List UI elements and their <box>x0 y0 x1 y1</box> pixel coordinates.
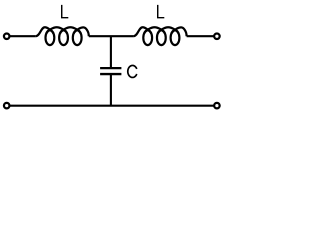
wire between inductors <box>89 35 134 37</box>
wire top-right lead <box>187 35 215 37</box>
wire top-left lead <box>9 35 36 37</box>
terminal top-left <box>4 33 10 39</box>
label L2 value <box>157 5 164 19</box>
label L1 value <box>61 5 68 19</box>
inductor L1 coil arches <box>36 27 89 36</box>
wire capacitor top lead <box>110 36 112 67</box>
inductor L1 coil loops <box>46 30 82 45</box>
wire capacitor bottom lead <box>110 75 112 106</box>
wire bottom rail <box>9 105 214 107</box>
capacitor C1 top plate <box>100 67 121 69</box>
inductor L2 coil loops <box>143 30 179 45</box>
terminal bottom-left <box>4 103 10 109</box>
label C value <box>128 65 137 77</box>
inductor L2 coil arches <box>134 27 187 36</box>
capacitor C1 bottom plate <box>100 73 121 75</box>
terminal top-right <box>214 33 220 39</box>
terminal bottom-right <box>214 103 220 109</box>
